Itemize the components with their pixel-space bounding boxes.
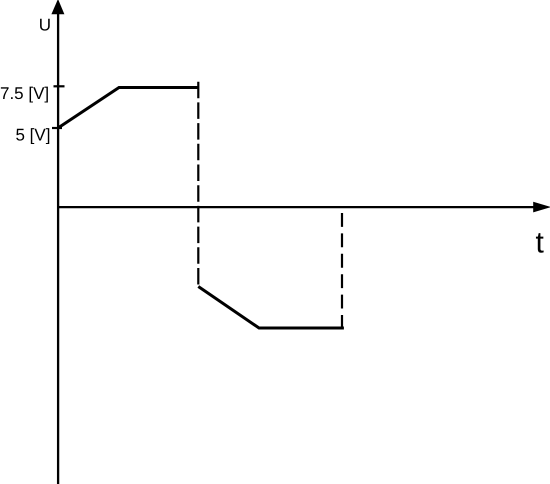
svg-text:t: t <box>536 226 545 259</box>
svg-text:5 [V]: 5 [V] <box>16 126 51 145</box>
svg-text:U: U <box>39 15 51 34</box>
svg-text:7.5 [V]: 7.5 [V] <box>0 84 49 103</box>
